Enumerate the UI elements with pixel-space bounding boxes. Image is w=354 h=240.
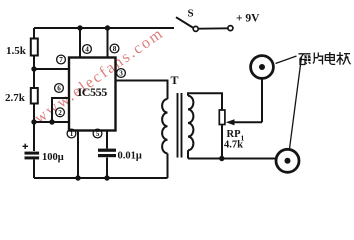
svg-text:8: 8 bbox=[113, 45, 117, 53]
svg-text:100μ: 100μ bbox=[42, 152, 64, 163]
svg-text:4.7k: 4.7k bbox=[224, 140, 243, 151]
svg-text:S: S bbox=[188, 8, 194, 20]
svg-text:T: T bbox=[171, 73, 179, 87]
svg-text:1: 1 bbox=[70, 130, 74, 138]
svg-text:2.7k: 2.7k bbox=[5, 92, 26, 104]
svg-text:5: 5 bbox=[96, 130, 100, 138]
svg-text:+ 9V: + 9V bbox=[236, 13, 260, 25]
svg-text:1.5k: 1.5k bbox=[6, 45, 27, 57]
svg-text:RP: RP bbox=[227, 129, 242, 140]
svg-text:6: 6 bbox=[57, 85, 61, 93]
svg-text:2: 2 bbox=[58, 109, 62, 117]
svg-text:4: 4 bbox=[85, 46, 89, 54]
svg-text:7: 7 bbox=[59, 56, 63, 64]
svg-text:0.01μ: 0.01μ bbox=[118, 151, 142, 162]
svg-text:3: 3 bbox=[119, 70, 123, 78]
svg-text:IC555: IC555 bbox=[78, 85, 108, 99]
